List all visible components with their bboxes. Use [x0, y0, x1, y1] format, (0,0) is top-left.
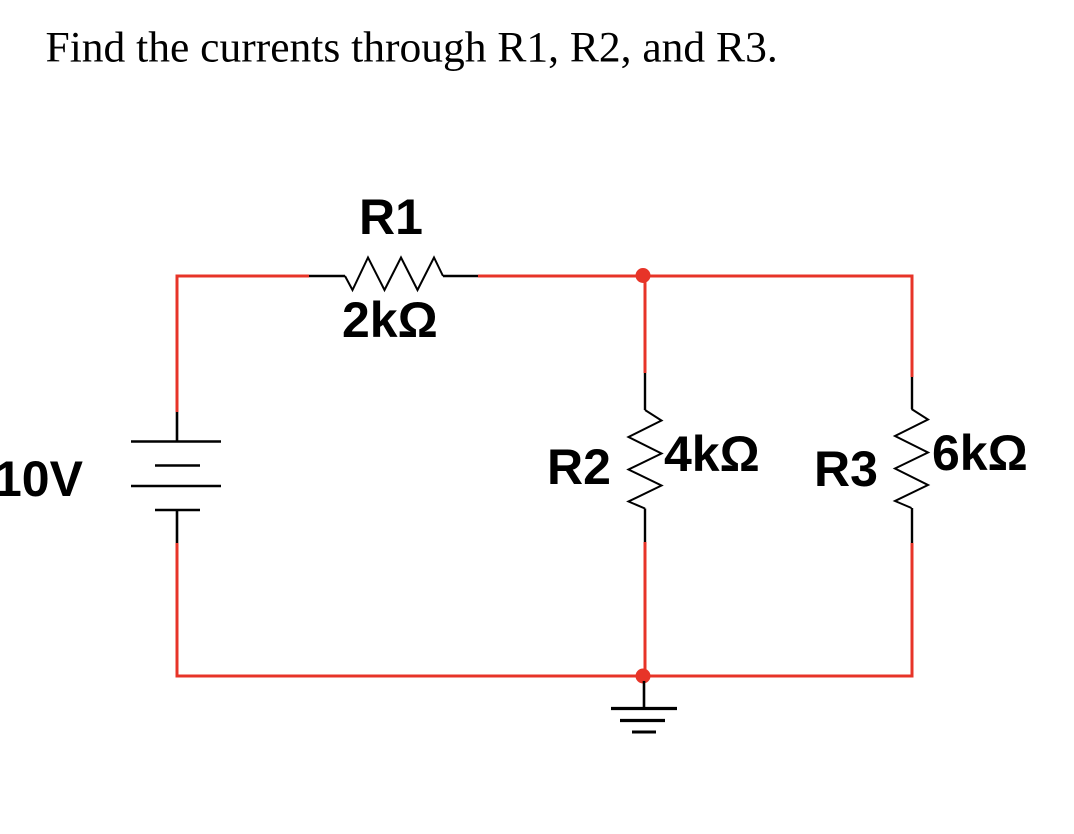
battery V1 10V source	[131, 412, 221, 543]
svg-text:4kΩ: 4kΩ	[664, 426, 760, 482]
wire: middle vertical lower (R2 bottom to node B)	[644, 542, 647, 676]
wire: left vertical upper (to battery top)	[176, 275, 179, 413]
svg-text:R2: R2	[547, 439, 611, 495]
wire: bottom horizontal rail	[176, 675, 914, 678]
wire: left vertical lower (battery bottom to bottom rail)	[176, 543, 179, 678]
wire: top-left horizontal (battery + to R1 left)	[176, 275, 310, 278]
svg-text:Find the currents through R1,: Find the currents through R1, R2, and R3…	[46, 24, 778, 72]
wire: right vertical lower (R3 bottom to bottom rail)	[911, 543, 914, 676]
svg-text:R1: R1	[359, 189, 423, 245]
svg-text:10V: 10V	[0, 451, 84, 507]
resistor R2	[629, 373, 662, 542]
svg-text:6kΩ: 6kΩ	[932, 425, 1028, 481]
junction node A (top middle)	[636, 268, 651, 283]
resistor R3	[895, 377, 928, 543]
wire: top horizontal (R1 right to top-right corner, through node A)	[478, 275, 914, 278]
resistor R1	[309, 258, 478, 291]
svg-text:2kΩ: 2kΩ	[342, 292, 438, 348]
ground	[611, 681, 677, 732]
junction node B (bottom middle)	[636, 669, 651, 684]
svg-text:R3: R3	[814, 441, 878, 497]
wire: right vertical upper (to R3 top)	[911, 275, 914, 378]
wire: middle vertical upper (node A to R2 top)	[644, 275, 647, 373]
